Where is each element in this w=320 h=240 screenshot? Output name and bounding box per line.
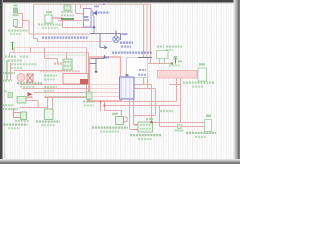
sheet background with grid (0, 0, 240, 164)
label above (112, 113, 118, 115)
value label (13, 14, 19, 16)
module box (46, 55, 86, 97)
wire (129, 99, 131, 130)
wire (28, 21, 30, 35)
wire (152, 122, 206, 124)
label text (38, 23, 62, 25)
gnd symbol (87, 92, 93, 99)
label text blue (122, 33, 128, 35)
wire thick (45, 96, 93, 98)
MCU highlight box (90, 57, 121, 101)
wire (13, 48, 15, 54)
wire (30, 48, 32, 53)
wire long bottom 1 (88, 101, 177, 103)
wire (180, 78, 182, 123)
wire top long (34, 3, 151, 5)
wire (159, 106, 161, 127)
resistor R1 label (14, 5, 18, 7)
label text (61, 18, 74, 20)
wire (20, 107, 48, 109)
net label blue mid (42, 37, 88, 39)
crystal Y2 (116, 117, 124, 125)
label text (8, 29, 28, 31)
wire (37, 39, 39, 42)
resistor R1 (14, 8, 18, 13)
wire (134, 84, 152, 86)
dark wire inside (95, 59, 97, 72)
component with red (17, 97, 26, 104)
tiny blue mark top (103, 3, 105, 5)
red pin stubs (134, 124, 138, 126)
arrow dark red (28, 92, 33, 96)
wire (134, 124, 139, 126)
wire (10, 63, 12, 80)
wire (45, 58, 58, 60)
wire (58, 20, 82, 22)
arrow (100, 46, 107, 49)
green text rows (44, 75, 57, 77)
wire (27, 100, 39, 102)
wire (52, 17, 63, 19)
dark wire top (138, 57, 152, 59)
wire long bottom 2 (105, 105, 181, 107)
IC top stub (126, 74, 129, 76)
thick double wire runs (45, 96, 93, 98)
wire (22, 88, 120, 90)
crossed box dark red (27, 74, 33, 82)
resistor R3 top-center-left (46, 11, 52, 13)
texts (15, 120, 29, 122)
red box (14, 113, 27, 118)
wire (75, 4, 77, 13)
junction (100, 101, 102, 103)
wire (63, 27, 95, 29)
motor M1 cross (114, 37, 118, 41)
gnd symbol right (178, 125, 182, 129)
connector X1 (138, 122, 153, 132)
net label blue long (112, 52, 152, 54)
op-amp U1 (120, 77, 135, 99)
resistor R4 top-center (64, 1, 70, 3)
wire dark (90, 33, 100, 35)
text (183, 82, 214, 84)
label (199, 63, 205, 65)
wire (37, 101, 39, 108)
blue text small (103, 57, 109, 59)
green texts (2, 104, 14, 106)
crystal legs (159, 59, 161, 64)
wire (20, 84, 120, 86)
text (83, 101, 95, 103)
resistor R6 (205, 120, 212, 132)
wire (23, 20, 30, 22)
wire (57, 59, 59, 63)
bus highlighted (158, 71, 198, 79)
label text blue (98, 12, 110, 14)
junction dark (95, 71, 98, 73)
wire (33, 4, 35, 38)
texts (92, 127, 128, 129)
diode D1 blue glyph (93, 11, 97, 16)
wire (130, 129, 139, 131)
red box component (63, 74, 88, 85)
dark wire inside (90, 63, 97, 65)
wire (80, 4, 82, 8)
wire (105, 110, 122, 112)
wire (121, 99, 123, 102)
label (166, 45, 182, 47)
left border (0, 0, 2, 164)
gnd text (20, 56, 29, 58)
wire (14, 47, 87, 49)
label (157, 45, 164, 47)
wire (86, 48, 88, 97)
dark wire inside (91, 58, 105, 60)
wire (44, 48, 46, 59)
wire blue vertical (93, 16, 95, 34)
wire (143, 4, 145, 57)
wire (66, 53, 68, 60)
red mark (124, 117, 128, 122)
junction green (171, 62, 173, 64)
wire (87, 97, 89, 102)
label text (61, 14, 74, 16)
label text blue (121, 46, 131, 48)
wire (134, 88, 156, 90)
top border (0, 0, 240, 2)
transistor Q1 highlight circle (17, 74, 25, 82)
dark red block (80, 79, 88, 84)
label (178, 61, 182, 63)
wire (76, 13, 84, 15)
gnd marks (8, 93, 13, 98)
texts (130, 134, 161, 136)
wire (121, 111, 123, 118)
wire (160, 126, 206, 128)
wire (92, 96, 120, 98)
wire loop top-left (15, 14, 23, 28)
wire (62, 18, 64, 28)
green comp C1 (21, 112, 27, 120)
junction (93, 27, 95, 29)
crystal Y1 (157, 51, 169, 59)
wire (150, 4, 152, 63)
wire (13, 108, 15, 113)
stub above motor (115, 31, 117, 37)
box U2 outline (100, 34, 121, 48)
wire (148, 63, 172, 65)
gnd text (5, 56, 16, 58)
resistor R5 right of bus (198, 68, 207, 81)
wire (146, 4, 148, 57)
texts (36, 121, 60, 123)
pin labels blue (84, 16, 88, 18)
resistor R2 (14, 20, 18, 27)
label text (62, 11, 73, 13)
label text blue small (94, 6, 99, 8)
wire (52, 97, 54, 118)
wire (104, 102, 106, 111)
dark stub (104, 55, 106, 59)
green vertical line (6, 60, 8, 80)
resistor R4 body (64, 5, 71, 11)
wire (47, 97, 49, 109)
supply green line (12, 42, 14, 50)
wire (10, 52, 89, 54)
wire (176, 78, 178, 102)
label (146, 118, 153, 120)
motor M1 blue circle (113, 36, 120, 43)
wire (9, 53, 11, 57)
label text (42, 27, 58, 29)
label text blue (120, 42, 133, 44)
green component IC2 (63, 59, 72, 70)
resistor R3 body (45, 15, 52, 23)
wire (100, 102, 102, 112)
wire (133, 99, 135, 125)
label (206, 115, 211, 117)
green text (17, 82, 42, 84)
module box gray (127, 58, 148, 78)
antenna symbol (175, 58, 177, 64)
wire (33, 92, 120, 94)
sheet frame line (3, 3, 5, 158)
label text (10, 33, 21, 35)
green comp C2 (45, 109, 54, 120)
wire mid (38, 41, 113, 43)
connector J1 purple box (84, 9, 92, 28)
wire (88, 53, 90, 102)
green text top right of verticals (160, 110, 173, 112)
red text (54, 63, 62, 65)
red text row (40, 70, 80, 72)
red label (27, 96, 33, 98)
wire (134, 115, 156, 117)
texts (186, 132, 216, 134)
blue text inside (139, 69, 146, 71)
wire (29, 33, 90, 35)
wire (14, 70, 63, 72)
wire stub (169, 84, 181, 86)
green text rows left (8, 59, 22, 61)
